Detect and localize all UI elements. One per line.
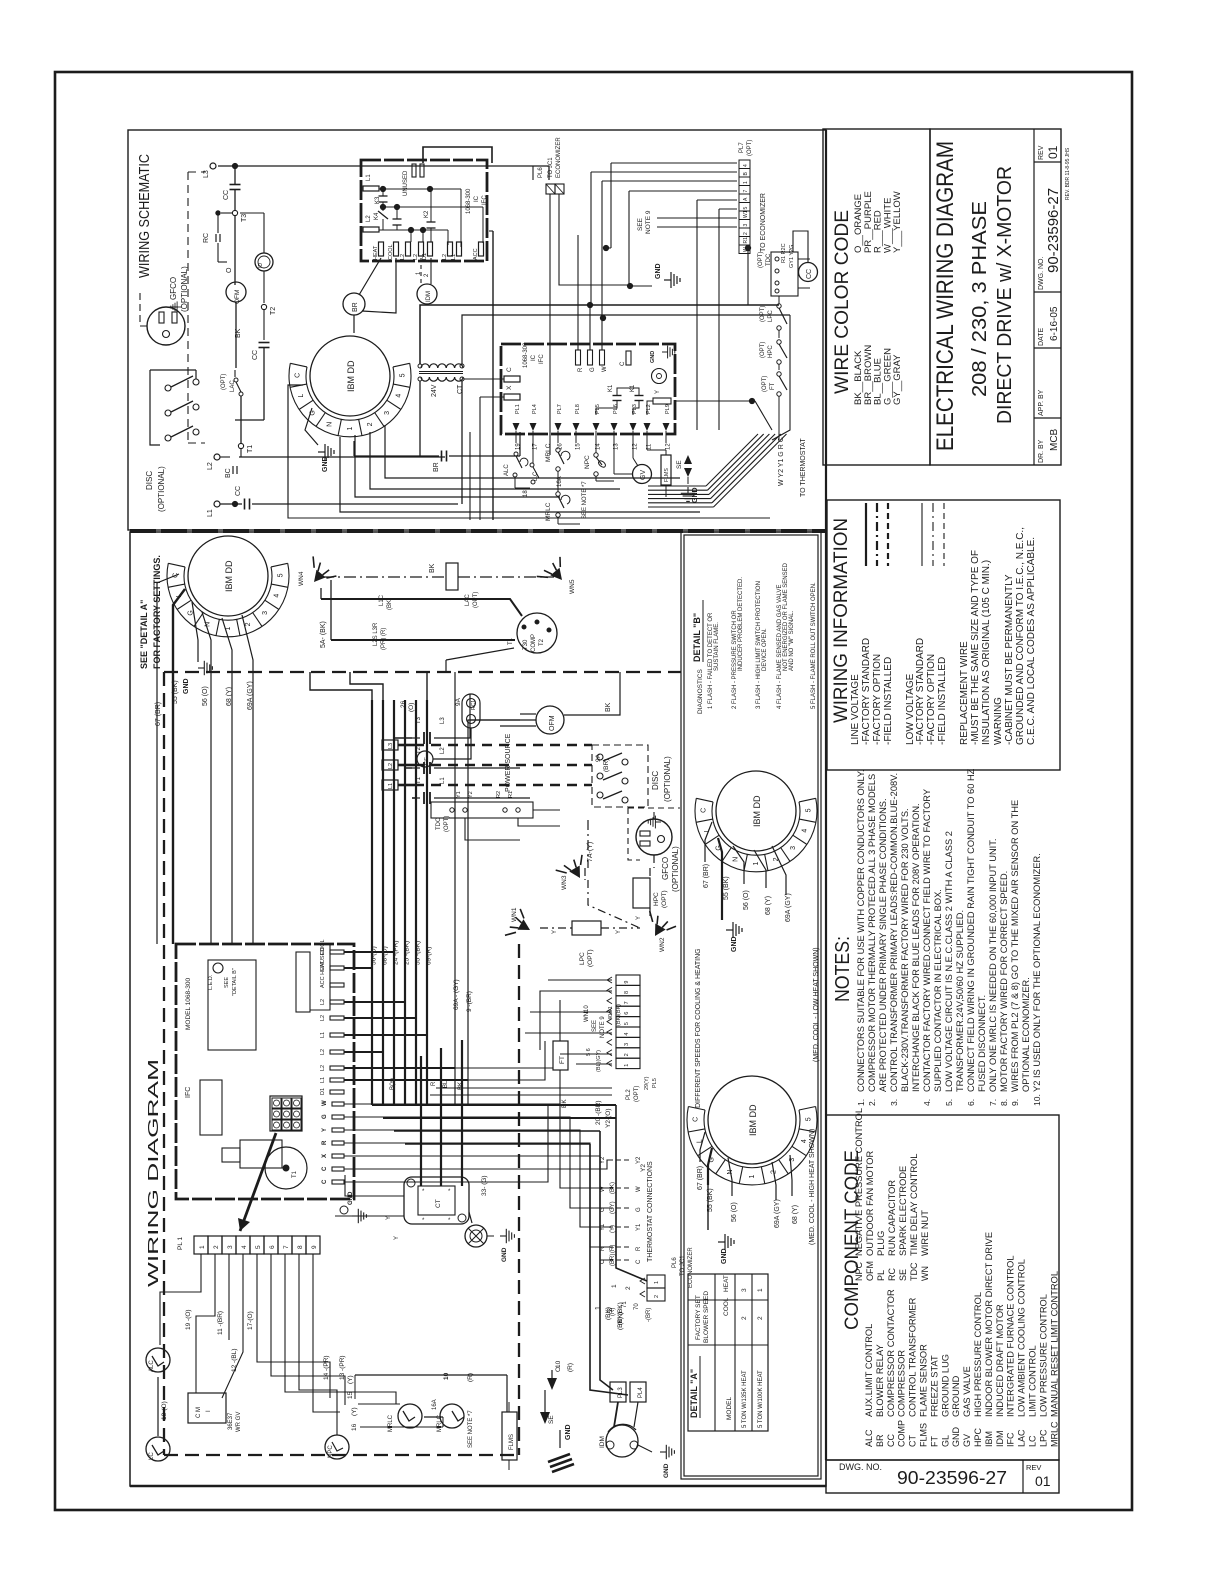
svg-text:IFC: IFC — [539, 354, 545, 364]
svg-text:WR GV: WR GV — [236, 1412, 242, 1432]
svg-text:4: 4 — [802, 829, 809, 833]
svg-text:(R): (R) — [567, 1363, 574, 1372]
svg-text:C: C — [692, 1117, 699, 1122]
label SEE DETAIL A — [139, 555, 162, 669]
cell DWG NO 90-23596-27 — [1038, 188, 1062, 290]
svg-text:POWER SOURCE: POWER SOURCE — [505, 733, 512, 792]
svg-text:CONTACTOR FACTORY WIRED.CONNEC: CONTACTOR FACTORY WIRED.CONNECT FIELD WI… — [922, 789, 932, 1092]
svg-text:PL5: PL5 — [652, 1078, 658, 1088]
svg-text:LOW VOLTAGE CIRCUIT IS N.E.C.C: LOW VOLTAGE CIRCUIT IS N.E.C.CLASS 2 WIT… — [944, 831, 954, 1092]
svg-text:R1: R1 — [743, 237, 749, 244]
node T1 — [238, 443, 254, 453]
svg-text:SE: SE — [898, 1269, 908, 1281]
ground at motor schematic — [305, 408, 334, 472]
svg-text:3: 3 — [743, 224, 749, 227]
svg-text:16: 16 — [351, 1423, 358, 1431]
svg-text:(OPT): (OPT) — [760, 306, 766, 322]
wire color code box — [823, 129, 930, 465]
svg-text:L2: L2 — [366, 215, 372, 222]
svg-text:DISC: DISC — [145, 471, 154, 490]
svg-text:24V: 24V — [431, 384, 438, 397]
svg-text:36E37: 36E37 — [228, 1412, 234, 1430]
svg-text:GND: GND — [655, 263, 662, 279]
svg-text:10: 10 — [555, 1360, 562, 1368]
svg-text:Y: Y — [616, 930, 622, 934]
svg-text:IFC: IFC — [1006, 1432, 1016, 1447]
svg-text:69A (GY): 69A (GY) — [774, 1199, 781, 1228]
svg-text:-FACTORY STANDARD: -FACTORY STANDARD — [915, 638, 926, 745]
svg-text:PL2: PL2 — [646, 404, 652, 414]
svg-text:IBM: IBM — [984, 1431, 994, 1447]
svg-text:L: L — [298, 394, 305, 398]
svg-text:ECONOMIZER: ECONOMIZER — [688, 1247, 694, 1288]
svg-text:B: B — [743, 172, 749, 176]
svg-text:2: 2 — [367, 422, 374, 426]
svg-text:W: W — [636, 1186, 642, 1192]
svg-text:T30: T30 — [523, 639, 529, 650]
svg-text:CONNECT FIELD WIRING IN GROUND: CONNECT FIELD WIRING IN GROUNDED RAIN TI… — [966, 768, 976, 1092]
svg-text:DIFFERENT SPEEDS FOR COOLING &: DIFFERENT SPEEDS FOR COOLING & HEATING — [695, 948, 702, 1108]
svg-text:3: 3 — [741, 1288, 748, 1292]
contact BC — [220, 449, 445, 478]
svg-text:LIMIT CONTROL: LIMIT CONTROL — [1028, 1345, 1038, 1417]
svg-text:DATE: DATE — [1038, 328, 1045, 346]
svg-text:(OPTIONAL): (OPTIONAL) — [157, 466, 166, 512]
svg-text:1: 1 — [624, 1064, 630, 1067]
svg-text:9: 9 — [311, 1245, 318, 1249]
svg-text:2: 2 — [625, 1286, 632, 1290]
svg-text:GND: GND — [663, 1463, 670, 1478]
svg-text:16: 16 — [558, 443, 564, 450]
svg-text:WN1: WN1 — [511, 907, 518, 922]
svg-text:DWG. NO.: DWG. NO. — [839, 1462, 882, 1472]
motor IBM DD detail A — [687, 1076, 817, 1185]
svg-text:PL6: PL6 — [672, 1257, 678, 1268]
svg-text:4: 4 — [801, 1139, 808, 1143]
svg-text:BK: BK — [429, 563, 436, 573]
svg-text:TRANSFORMER.24V,50/60 HZ SUPPL: TRANSFORMER.24V,50/60 HZ SUPPLIED. — [955, 910, 965, 1092]
control board IFC 2 schematic — [501, 342, 675, 434]
svg-text:1068-300: 1068-300 — [466, 188, 472, 214]
contact CC mid — [235, 343, 270, 421]
svg-text:(OPT): (OPT) — [221, 374, 227, 390]
svg-text:RC: RC — [887, 1268, 897, 1281]
svg-text:CC: CC — [235, 486, 242, 496]
svg-text:APP. BY: APP. BY — [1038, 389, 1045, 416]
svg-text:5: 5 — [255, 1245, 262, 1249]
svg-text:IFC: IFC — [185, 1087, 192, 1098]
svg-text:DETAIL "B": DETAIL "B" — [692, 613, 702, 662]
motor1 ground — [183, 602, 212, 694]
motor1 wire 56O — [202, 612, 211, 944]
cell DATE 6-16-05 — [1038, 306, 1060, 346]
svg-text:L1: L1 — [320, 1077, 326, 1083]
motor IBM DD detail B — [695, 771, 817, 872]
svg-text:THERMOSTAT CONNECTIONS: THERMOSTAT CONNECTIONS — [647, 1161, 654, 1262]
svg-text:T1: T1 — [508, 637, 514, 645]
svg-text:7: 7 — [624, 1001, 630, 1004]
pressure HPC diagram — [633, 868, 668, 920]
svg-text:ALC: ALC — [504, 464, 510, 476]
svg-text:W: W — [743, 247, 749, 252]
component code column 2 — [854, 1108, 930, 1281]
comp labels — [373, 594, 415, 712]
svg-text:DIRECT DRIVE w/ X-MOTOR: DIRECT DRIVE w/ X-MOTOR — [994, 166, 1016, 424]
svg-text:(OPT): (OPT) — [758, 252, 764, 268]
svg-text:PL6: PL6 — [613, 404, 619, 414]
wire bundle top turns — [310, 672, 536, 798]
svg-text:L1: L1 — [451, 254, 457, 260]
svg-text:TDC: TDC — [909, 1262, 919, 1281]
svg-text:GND: GND — [731, 936, 738, 952]
svg-text:WN10: WN10 — [584, 1005, 590, 1022]
svg-text:Y: Y — [552, 930, 558, 934]
svg-text:C: C — [600, 1259, 606, 1264]
svg-text:BC: BC — [225, 468, 232, 478]
svg-text:70: 70 — [634, 1303, 640, 1310]
svg-text:N: N — [327, 422, 334, 427]
capacitor BR — [354, 315, 520, 472]
svg-text:69A - (GY): 69A - (GY) — [453, 979, 460, 1010]
svg-text:R: R — [322, 1140, 328, 1145]
svg-text:4: 4 — [274, 594, 281, 598]
svg-text:C: C — [322, 1166, 328, 1171]
wires schematic right feeders — [489, 166, 790, 520]
svg-text:R: R — [431, 1081, 437, 1086]
svg-text:X: X — [322, 1154, 328, 1158]
svg-text:BK: BK — [561, 1099, 568, 1108]
terminal C bar board2 — [504, 367, 520, 382]
svg-text:K4: K4 — [374, 212, 380, 220]
svg-text:18-(O): 18-(O) — [161, 1401, 168, 1420]
motor1 wire 67BR — [155, 574, 179, 944]
svg-text:01: 01 — [1035, 1473, 1051, 1489]
svg-text:INDOOR BLOWER MOTOR DIRECT DRI: INDOOR BLOWER MOTOR DIRECT DRIVE — [984, 1232, 994, 1417]
svg-text:PL7: PL7 — [557, 404, 563, 414]
svg-text:CONTROL TRANSFORMER: CONTROL TRANSFORMER — [908, 1297, 918, 1417]
svg-text:GND: GND — [721, 1248, 728, 1264]
svg-text:REPLACEMENT WIRE: REPLACEMENT WIRE — [959, 641, 970, 745]
svg-text:DWG. NO.: DWG. NO. — [1038, 257, 1045, 290]
svg-text:8.: 8. — [999, 1099, 1009, 1106]
svg-text:ID: ID — [258, 263, 264, 268]
svg-text:R: R — [578, 367, 584, 372]
svg-text:56 (O): 56 (O) — [743, 890, 750, 910]
terminal X bar board2 — [504, 385, 520, 400]
svg-text:WN2: WN2 — [659, 937, 666, 952]
svg-text:T1: T1 — [247, 445, 254, 453]
disconnect DISC diagram — [592, 745, 672, 807]
pressure switch LPC schematic — [760, 296, 787, 338]
svg-text:5: 5 — [805, 808, 812, 812]
svg-text:GAS VALVE: GAS VALVE — [962, 1366, 972, 1417]
svg-text:(OPTIONAL): (OPTIONAL) — [671, 846, 680, 892]
svg-text:RUN CAPACITOR: RUN CAPACITOR — [887, 1180, 897, 1256]
svg-text:PL7: PL7 — [739, 142, 745, 153]
svg-text:GND: GND — [348, 1191, 354, 1205]
svg-text:HEAT: HEAT — [723, 1275, 730, 1292]
svg-text:15: 15 — [576, 443, 582, 450]
svg-text:IC: IC — [474, 195, 480, 202]
svg-text:SE: SE — [548, 1415, 555, 1424]
svg-text:55 (BK): 55 (BK) — [723, 876, 730, 900]
svg-text:9 -(BR): 9 -(BR) — [466, 991, 473, 1012]
detail A ground — [708, 1185, 734, 1264]
svg-text:(BK)(BK): (BK)(BK) — [616, 1004, 622, 1026]
dwg strip divider — [1022, 1460, 1024, 1493]
svg-text:I: I — [206, 1410, 212, 1412]
svg-text:*: * — [422, 1218, 425, 1224]
svg-text:TO JC1: TO JC1 — [548, 157, 554, 178]
svg-text:(OPT): (OPT) — [634, 1086, 640, 1102]
plug strip PL2 — [607, 975, 658, 1102]
svg-text:NPC: NPC — [854, 1261, 864, 1281]
title block cells grid — [1034, 129, 1061, 465]
label DETAIL B — [692, 600, 703, 662]
svg-text:Y2: Y2 — [600, 1156, 606, 1164]
svg-text:L2: L2 — [320, 1015, 326, 1021]
svg-text:LAC: LAC — [1017, 1429, 1027, 1447]
svg-text:1: 1 — [199, 1245, 206, 1249]
svg-text:BR: BR — [875, 1434, 885, 1447]
plug strip PL1 — [177, 1236, 320, 1254]
svg-text:CT: CT — [435, 1199, 442, 1208]
svg-text:SPARK ELECTRODE: SPARK ELECTRODE — [898, 1166, 908, 1256]
svg-text:PL4: PL4 — [638, 1387, 644, 1398]
svg-text:W: W — [602, 366, 608, 372]
svg-text:IC: IC — [531, 354, 537, 361]
svg-text:NPC: NPC — [328, 1445, 334, 1458]
svg-text:(OPT): (OPT) — [661, 890, 668, 908]
svg-text:G: G — [636, 1207, 642, 1212]
svg-text:-FACTORY OPTION: -FACTORY OPTION — [872, 654, 883, 745]
svg-text:20 -(BR): 20 -(BR) — [595, 1100, 602, 1125]
ground lug GL — [465, 1175, 514, 1262]
cell DR BY MCB — [1038, 428, 1060, 463]
wires TDC — [465, 810, 560, 840]
svg-text:-(BR): -(BR) — [646, 1308, 652, 1322]
motor IBM DD schematic — [289, 336, 411, 437]
svg-text:*: * — [422, 1189, 425, 1195]
border frame outer — [55, 72, 1132, 1510]
svg-text:REV: REV — [1026, 1463, 1041, 1472]
svg-text:1: 1 — [347, 426, 354, 430]
svg-text:CC: CC — [806, 269, 813, 279]
spark SE diagram — [540, 1367, 574, 1472]
svg-text:40 41: 40 41 — [608, 1006, 614, 1020]
svg-text:GND: GND — [951, 1427, 961, 1448]
svg-text:C: C — [620, 361, 626, 366]
control board IFC 1 schematic — [361, 147, 492, 261]
svg-text:C: C — [322, 1179, 328, 1184]
svg-text:C: C — [506, 367, 513, 372]
svg-text:G: G — [600, 1207, 606, 1212]
svg-text:L2: L2 — [413, 254, 419, 260]
negative pressure NPC diagram — [325, 1435, 349, 1459]
svg-text:IBM DD: IBM DD — [224, 560, 234, 592]
svg-text:CC: CC — [252, 350, 259, 360]
svg-text:(O): (O) — [408, 703, 415, 712]
svg-text:Y: Y — [655, 390, 661, 394]
svg-text:WIRING SCHEMATIC: WIRING SCHEMATIC — [136, 154, 153, 278]
svg-text:PL2: PL2 — [626, 1089, 632, 1100]
svg-text:GY1 Y2G: GY1 Y2G — [789, 245, 795, 268]
svg-text:SUPPLIED CONTACTOR IN ELECTRIC: SUPPLIED CONTACTOR IN ELECTRICAL BOX. — [933, 889, 943, 1092]
svg-text:TO THERMOSTAT: TO THERMOSTAT — [800, 438, 807, 497]
svg-text:SE: SE — [676, 460, 683, 469]
svg-text:Y: Y — [386, 1216, 392, 1220]
svg-text:2: 2 — [245, 622, 252, 626]
svg-text:"DETAIL B": "DETAIL B" — [232, 968, 238, 996]
power source dashes — [414, 733, 592, 792]
svg-text:K1: K1 — [608, 384, 614, 392]
svg-text:NPC: NPC — [584, 455, 591, 469]
svg-text:D1: D1 — [422, 253, 428, 260]
wires low voltage runs — [344, 1041, 612, 1260]
wire nut WN3 — [556, 855, 592, 890]
svg-text:33- (G): 33- (G) — [481, 1175, 488, 1196]
svg-text:D1: D1 — [320, 1088, 326, 1095]
svg-text:L2: L2 — [440, 747, 446, 754]
board spade terminals thermostat — [322, 1100, 344, 1184]
wire bundle bottom — [372, 1105, 647, 1395]
svg-text:IDM: IDM — [426, 291, 432, 302]
svg-text:ACC: ACC — [473, 248, 479, 260]
svg-text:N: N — [733, 857, 740, 862]
svg-text:LOW PRESSURE CONTROL: LOW PRESSURE CONTROL — [1038, 1294, 1048, 1417]
svg-text:(OPTIONAL): (OPTIONAL) — [663, 756, 672, 802]
svg-text:3.: 3. — [889, 1099, 899, 1106]
svg-text:CT: CT — [908, 1435, 918, 1447]
legend line-style samples — [866, 503, 944, 566]
svg-text:2: 2 — [757, 1316, 764, 1320]
label SEE NOTE 9 — [637, 210, 652, 234]
main right divider line — [825, 130, 827, 1460]
svg-text:FT: FT — [929, 1436, 939, 1447]
svg-text:GND: GND — [322, 456, 329, 472]
svg-text:DISC: DISC — [651, 771, 660, 790]
svg-text:MRLC: MRLC — [545, 443, 552, 462]
wire bundle labels — [371, 940, 474, 1012]
svg-text:HPC: HPC — [653, 892, 660, 906]
svg-text:17-(O): 17-(O) — [247, 1311, 254, 1330]
manual reset MRLC pair diagram — [388, 1399, 474, 1448]
svg-text:C: C — [636, 1259, 642, 1264]
svg-text:NOTE 9: NOTE 9 — [600, 1016, 606, 1038]
contact CC upper — [223, 169, 241, 210]
svg-text:GY__GRAY: GY__GRAY — [892, 354, 903, 405]
svg-text:REV. BDR 11-8-95 JHS: REV. BDR 11-8-95 JHS — [1065, 147, 1071, 200]
svg-text:HPC: HPC — [973, 1427, 983, 1447]
svg-text:COOL: COOL — [723, 1297, 730, 1316]
valve GV schematic — [614, 443, 652, 484]
svg-text:2: 2 — [624, 1053, 630, 1056]
svg-text:MODEL 1068-300: MODEL 1068-300 — [185, 977, 192, 1030]
svg-text:GV: GV — [640, 470, 647, 480]
terminal L1 — [207, 501, 220, 517]
thermostat connections terminals — [600, 1156, 642, 1266]
pressure switch HPC schematic — [760, 340, 787, 370]
svg-text:UNUSED: UNUSED — [403, 170, 409, 196]
wires economizer bundle — [591, 163, 751, 430]
svg-text:Y2: Y2 — [640, 1164, 647, 1172]
svg-text:(R): (R) — [610, 1308, 616, 1316]
svg-text:6: 6 — [624, 1012, 630, 1015]
svg-text:C: C — [294, 373, 301, 378]
wires dashdot gfco — [588, 855, 654, 928]
svg-text:5A- (BK): 5A- (BK) — [320, 621, 327, 648]
svg-text:SUSTAIN FLAME.: SUSTAIN FLAME. — [714, 622, 720, 671]
wires PL1 drops — [160, 1254, 396, 1435]
svg-text:CONNECTORS SUITABLE FOR USE WI: CONNECTORS SUITABLE FOR USE WITH COPPER … — [856, 769, 866, 1092]
svg-text:W Y2 Y1 G R C: W Y2 Y1 G R C — [778, 437, 785, 486]
svg-text:7.: 7. — [988, 1099, 998, 1106]
wire color code list — [853, 191, 903, 405]
svg-text:5 6: 5 6 — [586, 1048, 592, 1056]
svg-text:PL 1: PL 1 — [177, 1236, 184, 1250]
svg-text:(PR) (R): (PR) (R) — [381, 628, 387, 650]
svg-text:90-23596-27: 90-23596-27 — [1045, 188, 1062, 273]
svg-text:3: 3 — [384, 411, 391, 415]
svg-text:R: R — [636, 1246, 642, 1251]
labels wire colors mid — [390, 1078, 464, 1090]
comp wires — [321, 599, 522, 672]
svg-text:Y: Y — [322, 1128, 328, 1132]
svg-text:COMPRESSOR MOTOR THERMALLY PRO: COMPRESSOR MOTOR THERMALLY PROTECED.ALL … — [867, 774, 877, 1092]
svg-text:2: 2 — [213, 1245, 220, 1249]
svg-text:68 (Y): 68 (Y) — [792, 1205, 799, 1224]
label DETAIL A — [689, 1356, 700, 1418]
svg-text:ONLY ONE MRLC IS NEEDED ON THE: ONLY ONE MRLC IS NEEDED ON THE 60,000 IN… — [988, 839, 998, 1093]
detail A motor wires — [700, 1132, 792, 1200]
svg-text:(Y): (Y) — [610, 1225, 616, 1233]
svg-text:FT: FT — [559, 1056, 566, 1064]
wires thermostat fan schematic — [648, 434, 807, 507]
component code box — [826, 1115, 1059, 1460]
economizer connector diagram — [610, 1247, 694, 1322]
svg-text:(OPT): (OPT) — [762, 376, 768, 392]
title block box — [930, 129, 1061, 465]
svg-text:INDUCED DRAFT MOTOR: INDUCED DRAFT MOTOR — [995, 1304, 1005, 1417]
receptacle GFCO diagram — [628, 808, 680, 892]
svg-text:MRLC: MRLC — [1049, 1421, 1059, 1447]
label PL7 OPT — [739, 140, 753, 156]
svg-text:IBM DD: IBM DD — [752, 795, 762, 827]
svg-text:9.: 9. — [1010, 1099, 1020, 1106]
svg-text:1: 1 — [753, 861, 760, 865]
svg-text:(OPTIONAL): (OPTIONAL) — [180, 266, 189, 312]
svg-text:ELECTRICAL WIRING DIAGRAM: ELECTRICAL WIRING DIAGRAM — [932, 141, 959, 451]
svg-text:OPTIONAL ECONOMIZER.: OPTIONAL ECONOMIZER. — [1021, 977, 1031, 1092]
svg-text:2: 2 — [743, 232, 749, 235]
svg-text:PL6: PL6 — [538, 167, 544, 178]
wire nut WN2 — [640, 911, 676, 952]
wire bundle stubs — [344, 952, 468, 1080]
svg-text:GL: GL — [940, 1435, 950, 1447]
wire nut WN5 — [537, 557, 576, 594]
svg-text:AND NO "W" SIGNAL.: AND NO "W" SIGNAL. — [789, 610, 795, 671]
svg-text:PL3: PL3 — [618, 1387, 624, 1398]
svg-text:PL9: PL9 — [665, 404, 671, 414]
flame sensor FLMS schematic — [647, 443, 671, 497]
detail A motor labels — [697, 1166, 799, 1228]
svg-text:MANUAL RESET LIMIT CONTROL: MANUAL RESET LIMIT CONTROL — [1049, 1271, 1059, 1417]
svg-text:L3: L3 — [203, 170, 210, 178]
svg-text:67 (BR): 67 (BR) — [703, 864, 710, 888]
svg-text:COMPRESSOR: COMPRESSOR — [897, 1350, 907, 1417]
svg-text:HPC: HPC — [768, 345, 774, 358]
time delay TDC diagram — [431, 791, 533, 832]
